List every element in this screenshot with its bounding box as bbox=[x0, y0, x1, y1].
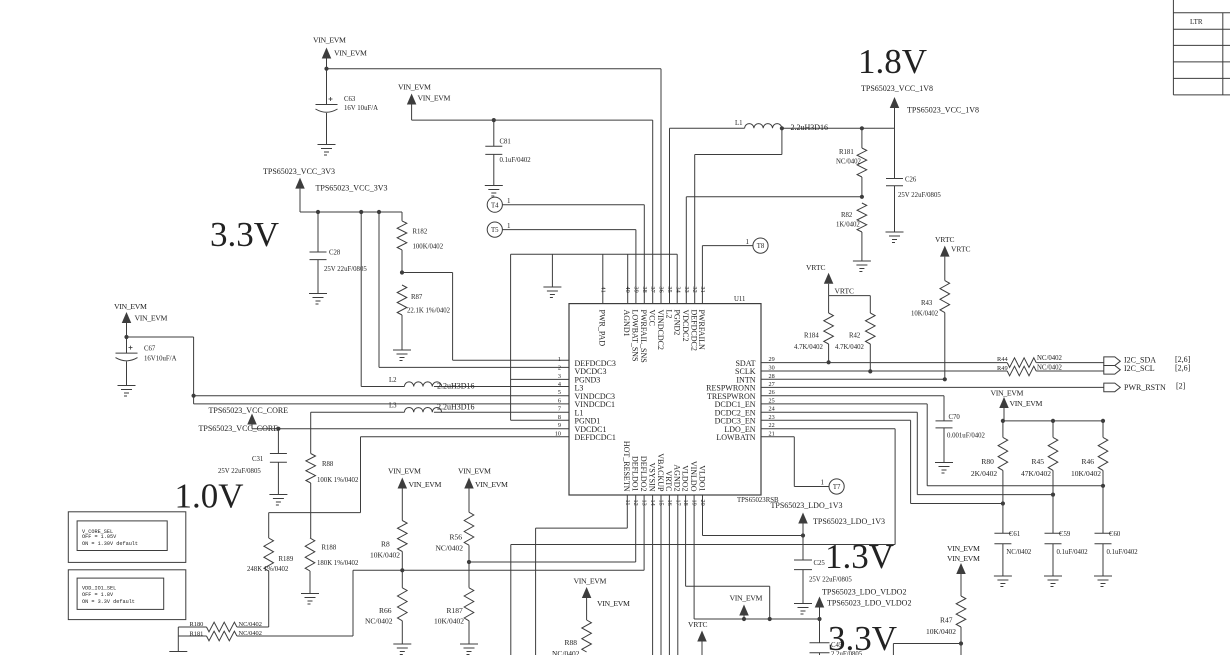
svg-text:33: 33 bbox=[683, 287, 690, 293]
svg-text:L2: L2 bbox=[389, 377, 397, 384]
svg-text:10K/0402: 10K/0402 bbox=[911, 311, 939, 318]
svg-text:25V 22uF/0805: 25V 22uF/0805 bbox=[809, 577, 852, 584]
svg-text:LOWBAT_SNS: LOWBAT_SNS bbox=[631, 310, 640, 362]
svg-text:39: 39 bbox=[632, 287, 639, 293]
svg-text:26: 26 bbox=[769, 389, 775, 396]
svg-text:1K/0402: 1K/0402 bbox=[836, 222, 860, 229]
svg-text:TPS65023_VCC_3V3: TPS65023_VCC_3V3 bbox=[316, 184, 388, 193]
svg-text:R187: R187 bbox=[447, 606, 464, 615]
svg-text:31: 31 bbox=[699, 287, 706, 293]
svg-text:VIN_EVM: VIN_EVM bbox=[313, 36, 346, 45]
svg-text:TPS65023_VCC_1V8: TPS65023_VCC_1V8 bbox=[907, 106, 979, 115]
svg-text:TPS65023_LDO_1V3: TPS65023_LDO_1V3 bbox=[813, 517, 885, 526]
svg-text:VDD_IO1_SEL: VDD_IO1_SEL bbox=[82, 586, 116, 592]
svg-text:R49: R49 bbox=[997, 365, 1008, 372]
svg-text:NC/0402: NC/0402 bbox=[1037, 355, 1063, 362]
svg-text:PWR_PAD: PWR_PAD bbox=[598, 310, 607, 347]
svg-text:16V 10uF/A: 16V 10uF/A bbox=[344, 105, 378, 112]
svg-text:VINLDO: VINLDO bbox=[689, 461, 698, 492]
svg-text:R47: R47 bbox=[940, 616, 953, 625]
svg-text:100K 1%/0402: 100K 1%/0402 bbox=[317, 477, 359, 484]
svg-text:10: 10 bbox=[555, 430, 561, 437]
svg-text:R8: R8 bbox=[381, 540, 390, 549]
svg-text:37: 37 bbox=[649, 287, 656, 293]
svg-text:NC/0402: NC/0402 bbox=[1006, 549, 1032, 556]
svg-text:VIN_EVM: VIN_EVM bbox=[475, 480, 508, 489]
svg-text:2: 2 bbox=[558, 365, 561, 372]
svg-text:C59: C59 bbox=[1059, 531, 1071, 538]
svg-text:C31: C31 bbox=[252, 456, 263, 463]
svg-text:T4: T4 bbox=[491, 202, 499, 209]
svg-text:R181: R181 bbox=[190, 631, 204, 638]
svg-text:VINDCDC2: VINDCDC2 bbox=[656, 310, 665, 350]
svg-text:C67: C67 bbox=[144, 346, 156, 353]
svg-text:36: 36 bbox=[658, 287, 665, 293]
svg-text:10K/0402: 10K/0402 bbox=[926, 627, 956, 636]
svg-text:VRTC: VRTC bbox=[806, 263, 826, 272]
svg-text:VRTC: VRTC bbox=[951, 245, 971, 254]
svg-text:0.001uF/0402: 0.001uF/0402 bbox=[947, 433, 986, 440]
svg-text:R184: R184 bbox=[804, 333, 819, 340]
svg-text:TPS65023_VCC_CORE: TPS65023_VCC_CORE bbox=[209, 406, 289, 415]
svg-text:VDCDC2: VDCDC2 bbox=[681, 310, 690, 342]
svg-text:R88: R88 bbox=[322, 461, 334, 468]
svg-text:HOT_RESETN: HOT_RESETN bbox=[622, 441, 631, 492]
svg-text:NC/0402: NC/0402 bbox=[836, 159, 862, 166]
svg-text:100K/0402: 100K/0402 bbox=[413, 244, 444, 251]
svg-text:34: 34 bbox=[674, 287, 681, 293]
svg-text:VRTC: VRTC bbox=[835, 287, 855, 296]
svg-text:VIN_EVM: VIN_EVM bbox=[458, 467, 491, 476]
svg-text:2.2uH3D16: 2.2uH3D16 bbox=[437, 403, 475, 412]
svg-text:VIN_EVM: VIN_EVM bbox=[418, 94, 451, 103]
svg-text:1.0V: 1.0V bbox=[175, 477, 244, 516]
svg-text:R80: R80 bbox=[981, 457, 994, 466]
svg-text:VIN_EVM: VIN_EVM bbox=[947, 554, 980, 563]
svg-text:7: 7 bbox=[558, 406, 561, 413]
svg-text:VIN_EVM: VIN_EVM bbox=[409, 480, 442, 489]
svg-text:T7: T7 bbox=[833, 484, 841, 491]
svg-text:VRTC: VRTC bbox=[935, 235, 955, 244]
svg-text:L1: L1 bbox=[735, 120, 743, 127]
svg-text:16V10uF/A: 16V10uF/A bbox=[144, 356, 177, 363]
svg-text:VIN_EVM: VIN_EVM bbox=[730, 594, 763, 603]
svg-text:VIN_EVM: VIN_EVM bbox=[334, 49, 367, 58]
svg-text:180K 1%/0402: 180K 1%/0402 bbox=[317, 560, 359, 567]
svg-text:R42: R42 bbox=[849, 333, 861, 340]
svg-text:LOWBATN: LOWBATN bbox=[716, 433, 755, 442]
svg-text:30: 30 bbox=[769, 365, 775, 372]
svg-text:AGND1: AGND1 bbox=[622, 310, 631, 337]
svg-text:C60: C60 bbox=[1109, 531, 1121, 538]
svg-text:OFF = 1.8V: OFF = 1.8V bbox=[82, 592, 114, 598]
svg-text:L3: L3 bbox=[389, 403, 397, 410]
svg-text:NC/0402: NC/0402 bbox=[1037, 365, 1063, 372]
svg-text:VIN_EVM: VIN_EVM bbox=[398, 83, 431, 92]
svg-text:ON = 3.3V default: ON = 3.3V default bbox=[82, 599, 135, 605]
svg-text:25: 25 bbox=[769, 397, 775, 404]
svg-text:PWRFAILN: PWRFAILN bbox=[697, 310, 706, 351]
svg-text:DEFLDO2: DEFLDO2 bbox=[639, 456, 648, 492]
svg-text:[2]: [2] bbox=[1176, 382, 1186, 391]
svg-text:VRTC: VRTC bbox=[664, 471, 673, 492]
svg-text:32: 32 bbox=[691, 287, 698, 293]
svg-text:2K/0402: 2K/0402 bbox=[971, 469, 998, 478]
svg-text:TPS65023_LDO_VLDO2: TPS65023_LDO_VLDO2 bbox=[822, 588, 906, 597]
svg-text:ON = 1.30V default: ON = 1.30V default bbox=[82, 541, 138, 547]
svg-text:28: 28 bbox=[769, 373, 775, 380]
svg-text:2.2uH3D16: 2.2uH3D16 bbox=[791, 123, 829, 132]
svg-text:PGND2: PGND2 bbox=[673, 310, 682, 336]
svg-text:R188: R188 bbox=[322, 545, 337, 552]
svg-text:35: 35 bbox=[666, 287, 673, 293]
svg-text:27: 27 bbox=[769, 381, 775, 388]
svg-text:R181: R181 bbox=[839, 149, 854, 156]
svg-text:OFF = 1.05V: OFF = 1.05V bbox=[82, 534, 117, 540]
svg-text:5: 5 bbox=[558, 389, 561, 396]
svg-text:U11: U11 bbox=[734, 296, 745, 303]
svg-text:TPS65023_VCC_3V3: TPS65023_VCC_3V3 bbox=[263, 167, 335, 176]
svg-text:VIN_EVM: VIN_EVM bbox=[574, 577, 607, 586]
svg-text:R46: R46 bbox=[1082, 457, 1095, 466]
svg-text:38: 38 bbox=[641, 287, 648, 293]
svg-text:4.7K/0402: 4.7K/0402 bbox=[794, 344, 823, 351]
svg-text:2.2uH3D16: 2.2uH3D16 bbox=[437, 382, 475, 391]
svg-text:AGND2: AGND2 bbox=[673, 464, 682, 491]
svg-text:PWRFAIL_SNS: PWRFAIL_SNS bbox=[639, 310, 648, 363]
svg-text:R43: R43 bbox=[921, 300, 933, 307]
svg-text:VIN_EVM: VIN_EVM bbox=[135, 314, 168, 323]
svg-text:3.3V: 3.3V bbox=[210, 215, 279, 254]
svg-text:24: 24 bbox=[769, 406, 775, 413]
svg-text:1: 1 bbox=[507, 197, 511, 205]
svg-text:VIN_EVM: VIN_EVM bbox=[597, 599, 630, 608]
svg-text:6: 6 bbox=[558, 397, 561, 404]
svg-text:25V 22uF/0805: 25V 22uF/0805 bbox=[218, 468, 261, 475]
svg-text:47K/0402: 47K/0402 bbox=[1021, 469, 1051, 478]
svg-text:VIN_EVM: VIN_EVM bbox=[991, 389, 1024, 398]
svg-text:0.1uF/0402: 0.1uF/0402 bbox=[1057, 549, 1089, 556]
svg-text:[2,6]: [2,6] bbox=[1175, 364, 1191, 373]
svg-text:R82: R82 bbox=[841, 212, 853, 219]
svg-text:C70: C70 bbox=[949, 414, 961, 421]
svg-text:R45: R45 bbox=[1032, 457, 1045, 466]
svg-text:C25: C25 bbox=[814, 560, 826, 567]
svg-text:22.1K 1%/0402: 22.1K 1%/0402 bbox=[407, 308, 451, 315]
svg-text:C61: C61 bbox=[1009, 531, 1020, 538]
svg-text:NC/0402: NC/0402 bbox=[365, 617, 393, 626]
svg-text:VIN_EVM: VIN_EVM bbox=[1010, 399, 1043, 408]
svg-text:VLDO1: VLDO1 bbox=[697, 465, 706, 491]
svg-text:LTR: LTR bbox=[1190, 18, 1203, 26]
svg-text:PWR_RSTN: PWR_RSTN bbox=[1124, 383, 1166, 392]
svg-text:R56: R56 bbox=[450, 533, 463, 542]
svg-text:22: 22 bbox=[769, 422, 775, 429]
svg-text:C26: C26 bbox=[905, 177, 917, 184]
svg-text:0.1uF/0402: 0.1uF/0402 bbox=[500, 157, 532, 164]
svg-text:NC/0402: NC/0402 bbox=[239, 621, 262, 628]
svg-text:3: 3 bbox=[558, 373, 561, 380]
svg-text:R180: R180 bbox=[190, 621, 204, 628]
svg-text:TPS65023_LDO_1V3: TPS65023_LDO_1V3 bbox=[771, 501, 843, 510]
svg-text:1: 1 bbox=[746, 238, 750, 246]
svg-text:T5: T5 bbox=[491, 227, 499, 234]
svg-text:VSYSIN: VSYSIN bbox=[647, 463, 656, 492]
svg-text:VLDO2: VLDO2 bbox=[680, 465, 689, 491]
svg-text:1.3V: 1.3V bbox=[825, 537, 894, 576]
svg-text:VCC: VCC bbox=[648, 310, 657, 326]
svg-text:L2: L2 bbox=[664, 310, 673, 319]
svg-text:29: 29 bbox=[769, 356, 775, 363]
svg-text:10K/0402: 10K/0402 bbox=[434, 617, 464, 626]
svg-text:DEFDCDC1: DEFDCDC1 bbox=[575, 433, 616, 442]
svg-text:R182: R182 bbox=[413, 229, 428, 236]
svg-text:1: 1 bbox=[507, 222, 511, 230]
svg-text:40: 40 bbox=[624, 287, 631, 293]
svg-text:VIN_EVM: VIN_EVM bbox=[388, 467, 421, 476]
svg-text:DEFLDO1: DEFLDO1 bbox=[631, 456, 640, 492]
svg-text:3.3V: 3.3V bbox=[828, 619, 897, 655]
svg-text:I2C_SCL: I2C_SCL bbox=[1124, 364, 1155, 373]
svg-text:VIN_EVM: VIN_EVM bbox=[114, 302, 147, 311]
svg-text:1: 1 bbox=[558, 356, 561, 363]
svg-text:10K/0402: 10K/0402 bbox=[370, 551, 400, 560]
svg-text:VIN_EVM: VIN_EVM bbox=[947, 544, 980, 553]
svg-text:21: 21 bbox=[769, 430, 775, 437]
svg-text:R66: R66 bbox=[379, 606, 392, 615]
svg-text:TPS65023_VCC_1V8: TPS65023_VCC_1V8 bbox=[861, 84, 933, 93]
svg-text:10K/0402: 10K/0402 bbox=[1071, 469, 1101, 478]
svg-text:248K 1%/0402: 248K 1%/0402 bbox=[247, 566, 289, 573]
svg-text:1: 1 bbox=[821, 479, 825, 487]
svg-text:R189: R189 bbox=[279, 556, 294, 563]
svg-text:41: 41 bbox=[599, 287, 606, 293]
svg-text:R88: R88 bbox=[565, 638, 578, 647]
svg-text:NC/0402: NC/0402 bbox=[239, 630, 262, 637]
svg-text:TPS65023_LDO_VLDO2: TPS65023_LDO_VLDO2 bbox=[827, 599, 911, 608]
svg-text:C81: C81 bbox=[500, 139, 511, 146]
svg-text:NC/0402: NC/0402 bbox=[436, 544, 464, 553]
svg-text:T8: T8 bbox=[757, 243, 765, 250]
svg-text:C63: C63 bbox=[344, 96, 356, 103]
svg-text:C28: C28 bbox=[329, 250, 341, 257]
svg-text:R44: R44 bbox=[997, 356, 1008, 363]
svg-text:1.8V: 1.8V bbox=[858, 42, 927, 81]
svg-text:9: 9 bbox=[558, 422, 561, 429]
svg-text:4.7K/0402: 4.7K/0402 bbox=[835, 344, 864, 351]
svg-text:0.1uF/0402: 0.1uF/0402 bbox=[1107, 549, 1139, 556]
svg-text:25V 22uF/0805: 25V 22uF/0805 bbox=[898, 192, 941, 199]
svg-text:VBACKUP: VBACKUP bbox=[656, 453, 665, 492]
svg-text:VRTC: VRTC bbox=[688, 620, 708, 629]
svg-text:23: 23 bbox=[769, 414, 775, 421]
svg-text:8: 8 bbox=[558, 414, 561, 421]
svg-text:R87: R87 bbox=[411, 294, 423, 301]
svg-text:DEFDCDC2: DEFDCDC2 bbox=[690, 310, 699, 351]
svg-text:NC/0402: NC/0402 bbox=[552, 649, 580, 655]
